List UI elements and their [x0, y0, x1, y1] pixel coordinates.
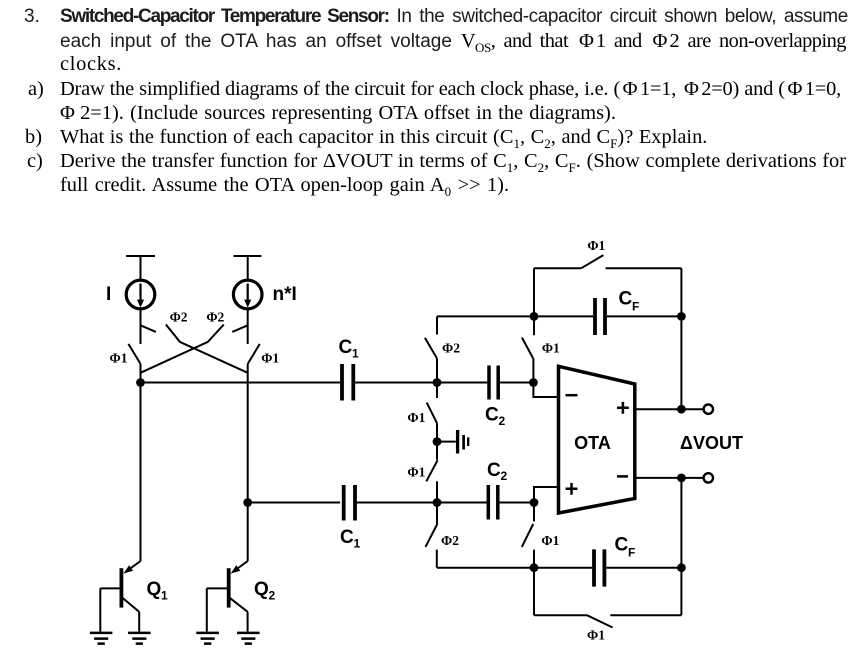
svg-text:Φ1: Φ1 [407, 410, 425, 425]
transistor Q1 base bar [120, 568, 124, 607]
svg-text:I: I [106, 284, 111, 305]
wire phi1 feedback bottom loop [534, 478, 681, 615]
svg-text:Φ1: Φ1 [110, 351, 128, 366]
switch phi1 column 534 [522, 316, 534, 382]
svg-text:Q: Q [254, 579, 269, 600]
svg-text:F: F [628, 546, 635, 560]
junction dot output plus [677, 405, 686, 414]
ground Q1 emitter [128, 633, 151, 644]
svg-text:Q: Q [147, 579, 162, 600]
wire output plus [635, 408, 704, 410]
svg-text:Φ1: Φ1 [587, 628, 605, 643]
switch phi2 top [425, 338, 437, 359]
node B wire bottom rail [248, 502, 534, 504]
switch phi1 feedback bottom [587, 615, 613, 627]
capacitor CF bottom [594, 549, 604, 586]
chassis reference symbol [437, 441, 456, 443]
svg-text:C: C [615, 535, 629, 556]
junction dot C2 top right [529, 378, 538, 387]
supply rail 1 [126, 256, 155, 281]
node A wire top rail [141, 382, 534, 384]
problem text [24, 6, 40, 28]
svg-text:Φ1: Φ1 [587, 238, 605, 253]
switch phi1 mid lower [426, 442, 437, 503]
node B junction dot [243, 498, 252, 507]
ground Q2 base [196, 633, 219, 644]
svg-text:F: F [632, 300, 639, 314]
wire left branch down to Q1 [140, 383, 142, 562]
switch phi1 left [128, 344, 140, 364]
svg-text:Φ1: Φ1 [541, 533, 559, 548]
OTA minus input pin [566, 394, 578, 397]
transistor Q2 collector lead [235, 561, 248, 570]
node A junction dot [136, 378, 145, 387]
junction dot output minus [677, 474, 686, 483]
current source n*I [233, 280, 262, 309]
supply rail 2 [234, 256, 262, 281]
ground Q2 emitter [237, 633, 260, 644]
junction dot CF bottom right [677, 563, 686, 572]
terminal output minus [704, 473, 713, 482]
switch phi1 right [248, 344, 260, 364]
svg-text:Φ2: Φ2 [170, 309, 188, 324]
svg-text:Φ1: Φ1 [261, 351, 279, 366]
capacitor C1 top [342, 364, 353, 401]
svg-text:2: 2 [499, 414, 506, 428]
transistor Q1 emitter lead [123, 598, 140, 632]
capacitor CF top [595, 298, 605, 335]
wire loop verticals top [534, 268, 681, 409]
svg-text:C: C [487, 460, 501, 481]
switch phi2 bottom [426, 503, 438, 568]
transistor Q1 base lead [100, 588, 121, 631]
junction dot CF top left [530, 312, 539, 321]
switch phi1 feedback top [581, 255, 603, 268]
transistor Q2 base lead [207, 588, 229, 631]
transistor Q1 collector lead [128, 561, 141, 570]
svg-text:C: C [340, 527, 354, 548]
wire OTA plus input jog [534, 487, 557, 503]
junction dot C2 bottom right [530, 498, 539, 507]
wire phi2 column top [436, 316, 438, 334]
wire phi1 feedback top loop [534, 267, 681, 269]
svg-text:1: 1 [352, 347, 359, 361]
OTA plus output pin [617, 402, 629, 414]
wire left branch [140, 309, 142, 345]
wire CF bottom rail [437, 567, 681, 569]
svg-text:Φ1: Φ1 [407, 465, 425, 480]
switch phi2 left contact [141, 325, 156, 332]
OTA plus input pin [566, 483, 578, 495]
ground Q1 base [90, 633, 113, 644]
svg-text:C: C [619, 289, 633, 310]
current source I [126, 280, 155, 309]
svg-text:C: C [485, 404, 499, 425]
svg-text:ΔVOUT: ΔVOUT [680, 433, 743, 453]
wire [140, 364, 142, 383]
junction dot CF bottom left [530, 563, 539, 572]
switch phi1 mid upper [427, 383, 437, 442]
wire [436, 358, 438, 382]
svg-text:Φ2: Φ2 [206, 309, 224, 324]
switch phi1 column 534 bottom [522, 503, 534, 568]
capacitor C2 top [489, 366, 498, 400]
junction dot C1 bottom right [433, 498, 442, 507]
wire right branch [247, 309, 249, 345]
svg-text:n*I: n*I [273, 284, 297, 305]
svg-text:Φ1: Φ1 [542, 340, 560, 355]
transistor Q2 base bar [227, 568, 231, 607]
transistor Q2 emitter lead [230, 598, 248, 632]
svg-text:Φ2: Φ2 [442, 340, 460, 355]
svg-text:OTA: OTA [574, 433, 611, 453]
junction dot CF top right [677, 312, 686, 321]
svg-text:1: 1 [161, 589, 168, 603]
node offset reference junction [433, 437, 442, 446]
op-amp OTA body [559, 366, 635, 513]
switch phi2 right contact [232, 325, 247, 332]
wire OTA minus input jog [533, 383, 557, 398]
junction dot C1 right [433, 378, 442, 387]
wire right branch down to Q2 [247, 364, 249, 561]
svg-text:C: C [339, 337, 353, 358]
OTA minus output pin [617, 475, 628, 478]
capacitor C2 bottom [488, 485, 498, 520]
switch phi2 cross lever right [141, 325, 224, 373]
wire CF top rail [437, 315, 681, 317]
svg-text:2: 2 [501, 469, 508, 483]
svg-text:1: 1 [354, 537, 361, 551]
svg-text:Φ2: Φ2 [441, 533, 459, 548]
switch phi2 cross lever left [166, 325, 248, 373]
wire output minus [635, 477, 704, 479]
terminal output plus [704, 405, 713, 414]
capacitor C1 bottom [344, 485, 355, 521]
svg-text:2: 2 [269, 589, 276, 603]
